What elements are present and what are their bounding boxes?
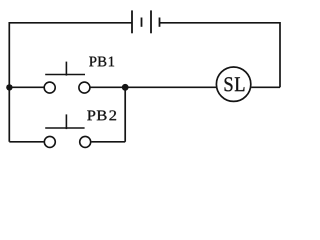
label PB2 [87, 110, 116, 120]
wire PB2 branch right [92, 141, 126, 143]
pushbutton PB2 [44, 114, 90, 147]
label SL [225, 77, 245, 91]
battery [132, 10, 160, 33]
wire left vertical [8, 22, 10, 142]
pushbutton PB1 [44, 62, 90, 94]
node junction right [122, 84, 129, 91]
wire lamp to right vertical [251, 86, 280, 88]
wire top-left segment [9, 22, 132, 24]
label PB1 [89, 57, 114, 67]
wire PB2 riser to junction [124, 87, 126, 142]
node junction left [6, 84, 12, 90]
lamp SL [216, 67, 250, 101]
wire right vertical [279, 22, 281, 87]
wire top-right segment [160, 22, 281, 24]
wire PB1 branch right to lamp [90, 86, 216, 88]
wire PB1 branch left [9, 86, 43, 88]
wire PB2 branch left [9, 141, 43, 143]
